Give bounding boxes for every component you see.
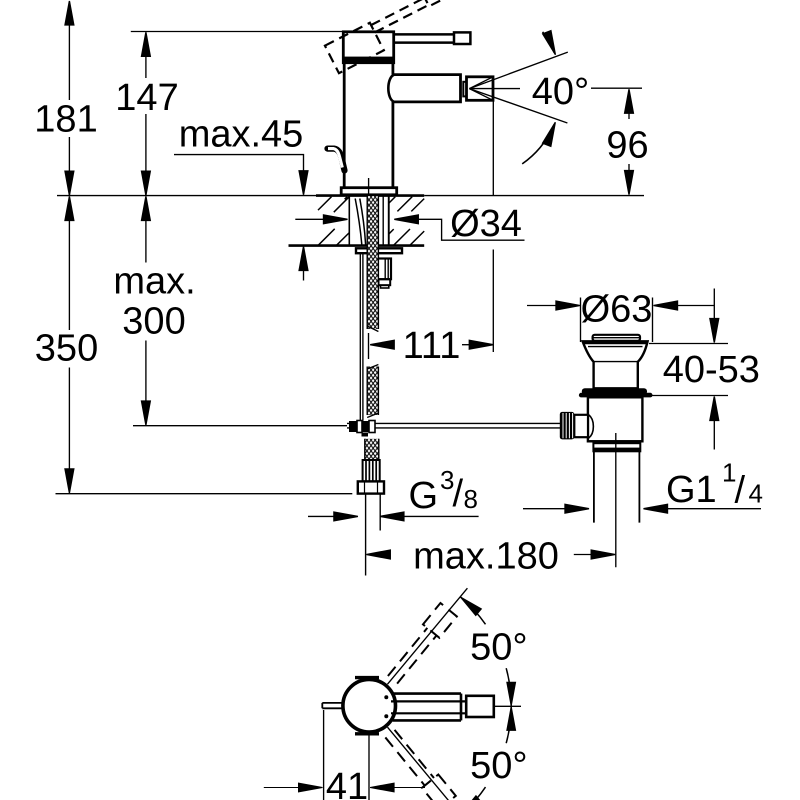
svg-text:/: / — [453, 473, 464, 515]
deck hatch right block — [389, 197, 424, 212]
svg-text:max.180: max.180 — [413, 536, 559, 578]
rubber seal — [582, 388, 647, 395]
braided hose segment C — [365, 439, 379, 460]
fan arcs — [543, 32, 555, 53]
svg-text:50°: 50° — [470, 627, 527, 669]
dim 96 — [628, 111, 630, 175]
deck top line thick part — [316, 194, 424, 197]
dashed handle (raised position) — [325, 0, 452, 73]
waste axis line — [615, 433, 617, 567]
O63 extension lines — [581, 298, 653, 343]
spray fan 40deg — [469, 31, 642, 164]
lever top view — [391, 701, 466, 713]
screw dots — [384, 695, 388, 699]
svg-text:350: 350 — [35, 328, 98, 370]
dim G1 1/4 — [523, 508, 568, 510]
svg-text:111: 111 — [403, 325, 461, 367]
washer under deck — [356, 248, 402, 253]
tangent flats — [355, 678, 379, 734]
dim max180 — [366, 550, 390, 559]
faucet axis line — [368, 178, 370, 197]
svg-text:/: / — [735, 470, 746, 512]
dim max45 leader — [174, 155, 304, 281]
aerator extension line — [492, 100, 494, 352]
handle lever bar — [394, 34, 454, 42]
dashed lever rotated up 50 — [384, 603, 457, 686]
deck top line — [57, 195, 644, 197]
DIMENSIONS — [56, 1, 762, 559]
svg-text:max.: max. — [113, 261, 195, 303]
faucet body — [325, 0, 493, 197]
lever end block — [466, 696, 494, 717]
knob stem — [574, 415, 588, 437]
dim max300 — [145, 218, 147, 405]
G3/8 level reference line — [56, 493, 353, 495]
supply pipe G3/8 — [366, 494, 381, 576]
svg-text:G: G — [409, 475, 439, 517]
spout top view — [393, 694, 461, 721]
svg-text:181: 181 — [34, 99, 97, 141]
dim O34 leader — [295, 218, 326, 220]
svg-text:147: 147 — [115, 77, 178, 119]
handle lever end — [454, 32, 470, 44]
dim 147 — [145, 53, 147, 195]
svg-text:max.45: max.45 — [179, 114, 304, 156]
dim G3/8 — [308, 515, 337, 517]
braided hose segment A — [367, 196, 378, 332]
svg-text:40-53: 40-53 — [663, 349, 760, 391]
dim O63 — [527, 305, 559, 307]
pull rod stub — [322, 703, 343, 708]
svg-text:40°: 40° — [532, 71, 589, 113]
braided hose segment B — [367, 365, 378, 418]
pop-up rod knob on body — [328, 149, 345, 171]
hose ribbed connector — [363, 460, 380, 481]
svg-text:8: 8 — [464, 484, 478, 514]
center line — [494, 705, 521, 707]
svg-text:Ø34: Ø34 — [450, 203, 522, 245]
svg-text:50°: 50° — [470, 745, 527, 787]
bottom flange — [588, 440, 643, 442]
svg-text:41: 41 — [326, 766, 368, 800]
50deg arcs — [461, 597, 512, 706]
knurled knob — [560, 412, 575, 440]
dim 111 — [368, 333, 370, 359]
svg-text:300: 300 — [122, 301, 185, 343]
deck hatch left block — [318, 196, 424, 246]
svg-text:G1: G1 — [666, 469, 717, 511]
horizontal pull rod line single — [133, 425, 347, 427]
below-deck assembly — [133, 196, 560, 576]
aerator — [467, 77, 494, 101]
dim 181 — [68, 2, 70, 195]
deck bottom line — [289, 244, 425, 247]
top cap — [593, 335, 640, 341]
svg-text:4: 4 — [749, 479, 763, 509]
horizontal rod double lines — [347, 423, 560, 428]
spout — [394, 75, 461, 102]
handle cap — [343, 32, 393, 63]
base plate — [341, 188, 397, 195]
deck hole edges — [349, 196, 389, 246]
body circle — [343, 679, 396, 732]
plunger arc — [589, 415, 594, 439]
svg-text:96: 96 — [606, 125, 648, 167]
tailpipe — [594, 452, 640, 523]
hex nut — [358, 481, 384, 493]
dashed lever rotated down 50 — [382, 726, 455, 800]
trumpet flange — [583, 341, 648, 388]
50deg angle lines — [388, 588, 468, 800]
valve body — [588, 397, 643, 441]
shank cutaway curves — [355, 199, 365, 245]
svg-text:Ø63: Ø63 — [581, 289, 653, 331]
spout neck — [463, 82, 466, 97]
waste valve — [560, 298, 653, 568]
dim 147 reference line — [131, 31, 344, 33]
dim 350 — [68, 218, 70, 473]
in-hole rod tube lines — [383, 197, 388, 246]
dim 40-53 — [713, 289, 715, 450]
rod tee clevis — [349, 421, 357, 432]
pull rod below deck — [360, 253, 363, 421]
dim 41 — [324, 710, 369, 800]
TOP VIEW — [264, 588, 521, 800]
mounting nut — [375, 259, 391, 280]
